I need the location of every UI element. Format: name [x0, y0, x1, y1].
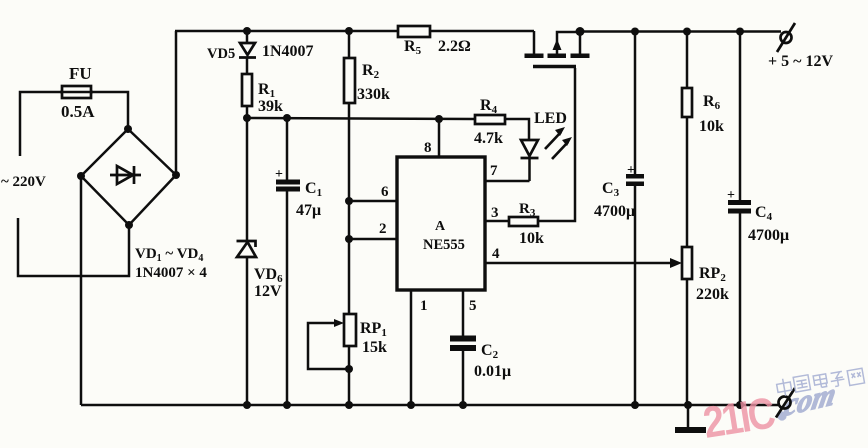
svg-text:VD5: VD5 [207, 46, 235, 62]
svg-text:2.2Ω: 2.2Ω [438, 38, 471, 55]
svg-text:4700μ: 4700μ [748, 227, 789, 244]
resistor R3 [509, 201, 544, 247]
svg-text:39k: 39k [258, 98, 283, 115]
svg-text:47μ: 47μ [296, 202, 321, 219]
node dot C3 [631, 28, 639, 36]
wire: pin2 stub [349, 238, 397, 241]
svg-text:+: + [275, 167, 283, 182]
wire: bottom rail [81, 404, 778, 407]
wire: node line y118 (R1 bottom to R4) [247, 118, 475, 119]
terminal: +5~12V output [768, 23, 833, 70]
wire: fuse to bridge top corner [91, 92, 128, 129]
wire: AC neutral lead [18, 218, 129, 276]
svg-text:+ 5 ~ 12V: + 5 ~ 12V [768, 53, 833, 70]
svg-text:1: 1 [420, 298, 428, 314]
svg-text:4700μ: 4700μ [594, 203, 635, 220]
wire: pin7 stub [485, 180, 530, 183]
svg-text:1N4007 × 4: 1N4007 × 4 [135, 265, 207, 281]
wire: AC live lead left [20, 92, 62, 156]
svg-text:NE555: NE555 [423, 237, 465, 253]
wire: R2 line down to RP1 [348, 239, 351, 314]
svg-text:4: 4 [492, 246, 500, 262]
svg-text:+: + [727, 188, 735, 203]
diode VD5 [207, 31, 314, 74]
wire: pin8 [438, 119, 441, 157]
svg-text:3: 3 [491, 205, 499, 221]
resistor R1 [242, 74, 283, 118]
node dot C4 [736, 28, 744, 36]
svg-text:8: 8 [424, 140, 432, 156]
svg-text:2: 2 [379, 221, 387, 237]
LED [521, 110, 573, 181]
terminal: output ground [776, 388, 795, 418]
svg-text:4.7k: 4.7k [474, 130, 503, 147]
capacitor C4 [727, 31, 789, 405]
svg-text:FU: FU [69, 64, 92, 83]
node dot top rail R2 [345, 27, 353, 35]
node dot R6 [683, 28, 691, 36]
watermark 21IC [700, 388, 778, 448]
svg-text:A: A [435, 219, 446, 234]
wire: bridge DC+ to top rail [175, 31, 178, 175]
watermark 中国电子网 [776, 368, 865, 397]
wire: pin3 stub [485, 220, 509, 223]
transistor Q1: MOSFET switch [525, 27, 590, 67]
svg-text:220k: 220k [696, 286, 729, 303]
svg-text:~ 220V: ~ 220V [1, 174, 46, 190]
capacitor C3 [594, 31, 644, 405]
resistor R2 [344, 31, 390, 240]
wire: pin4 to RP2 wiper [485, 262, 678, 265]
resistor R4 [474, 97, 529, 147]
zener diode VD6 [237, 118, 284, 405]
potentiometer RP1 [308, 314, 387, 405]
svg-text:VD1 ~ VD4: VD1 ~ VD4 [135, 246, 203, 264]
svg-text:330k: 330k [357, 86, 390, 103]
wire: R3 to MOSFET gate [538, 68, 575, 221]
svg-text:+: + [627, 163, 635, 178]
svg-text:0.01μ: 0.01μ [474, 363, 511, 380]
svg-text:7: 7 [490, 163, 498, 179]
svg-text:LED: LED [534, 110, 567, 127]
svg-text:1N4007: 1N4007 [262, 43, 314, 60]
svg-text:6: 6 [381, 184, 389, 200]
label R5 [398, 26, 471, 57]
svg-text:10k: 10k [519, 230, 544, 247]
svg-text:12V: 12V [254, 283, 282, 300]
bottom rail node dots [243, 401, 251, 409]
wire: top rail right section [580, 30, 781, 33]
capacitor C1 [275, 118, 322, 405]
node dot top rail VD5 [243, 27, 251, 35]
watermark .com [777, 376, 838, 423]
fuse FU [60, 64, 95, 121]
svg-text:0.5A: 0.5A [61, 102, 95, 121]
svg-text:15k: 15k [362, 339, 387, 356]
wire: pin6 stub [349, 200, 397, 203]
svg-text:10k: 10k [699, 118, 724, 135]
ground [675, 405, 706, 433]
wire: bridge DC- to bottom rail [80, 176, 83, 405]
capacitor C2 [450, 336, 511, 406]
op-amp U1: NE555 timer box [397, 157, 485, 290]
wire: top rail left section [175, 30, 534, 33]
resistor R6 [682, 31, 724, 247]
bridge rectifier VD1-VD4 [77, 125, 180, 229]
potentiometer RP2 [682, 247, 729, 405]
wire: pin1 [410, 290, 413, 405]
wire: pin5 [462, 290, 465, 336]
svg-text:5: 5 [469, 298, 477, 314]
